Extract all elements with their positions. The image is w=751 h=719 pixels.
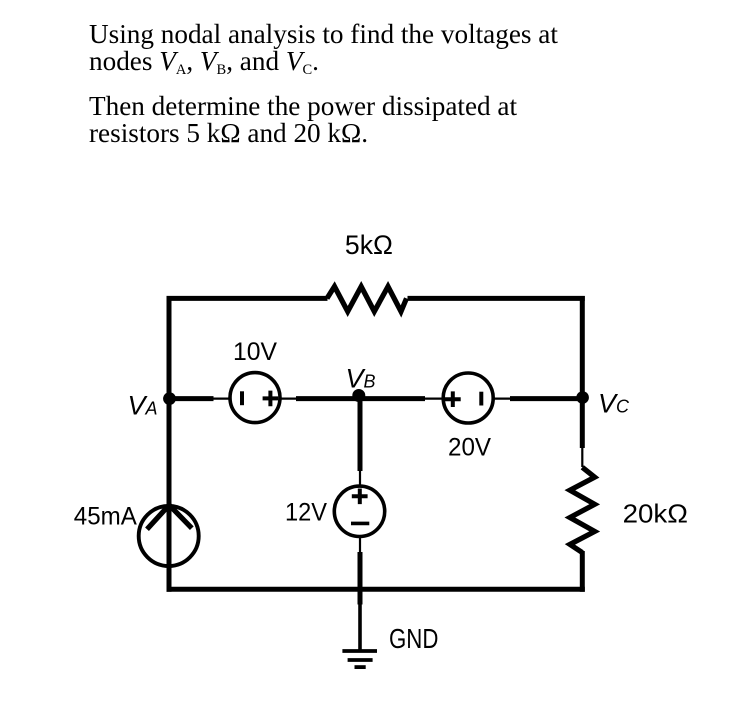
resistor 5kOhm zigzag bbox=[327, 287, 407, 312]
question text paragraph 1 bbox=[89, 21, 558, 84]
voltage source 12V plus sign bbox=[352, 489, 368, 505]
wire: left vertical V_A branch bbox=[167, 296, 172, 592]
voltage source 12V minus bar bbox=[351, 522, 369, 526]
voltage source 10V circle bbox=[230, 373, 280, 423]
svg-text:12V: 12V bbox=[285, 499, 327, 527]
lead: 12V bottom bbox=[359, 536, 361, 553]
svg-text:45mA: 45mA bbox=[74, 502, 137, 530]
question text paragraph 2 bbox=[89, 93, 517, 147]
wire: 10V source to V_B bbox=[296, 396, 360, 401]
wire: right vertical upper bbox=[580, 296, 585, 448]
lead: 20V right bbox=[493, 398, 511, 400]
voltage source 20V circle bbox=[443, 373, 493, 423]
svg-text:VA: VA bbox=[128, 391, 158, 421]
resistor 20kOhm zigzag bbox=[570, 467, 595, 552]
wire: 20V source to V_C bbox=[510, 396, 582, 401]
wire: top right segment bbox=[408, 296, 585, 301]
lead: 10V left bbox=[214, 398, 231, 400]
svg-text:20V: 20V bbox=[448, 434, 491, 462]
wire: V_B branch down to 12V source bbox=[358, 399, 363, 471]
wire: 12V source to bottom wire and GND stub bbox=[358, 552, 363, 605]
ground bar 2 bbox=[348, 658, 373, 662]
wire: V_B to 20V source bbox=[360, 396, 425, 401]
svg-text:VB: VB bbox=[346, 363, 376, 393]
voltage source 20V minus terminal bar bbox=[479, 392, 483, 406]
voltage source 20V plus sign bbox=[445, 391, 461, 407]
lead: 10V right bbox=[280, 398, 297, 400]
node C dot bbox=[576, 391, 589, 404]
wire: top left segment bbox=[167, 296, 328, 301]
wire: right vertical lower bbox=[580, 551, 585, 592]
svg-text:5kΩ: 5kΩ bbox=[345, 230, 393, 260]
lead: 20k resistor top bbox=[581, 448, 583, 468]
svg-text:10V: 10V bbox=[233, 338, 277, 366]
current source 45mA circle bbox=[139, 506, 199, 566]
voltage source 12V circle bbox=[334, 486, 384, 536]
ground bar 1 bbox=[342, 649, 377, 653]
ground stem thin bbox=[358, 604, 362, 651]
wire: bottom horizontal bbox=[167, 587, 585, 592]
node A dot bbox=[163, 392, 176, 405]
svg-text:20kΩ: 20kΩ bbox=[623, 499, 688, 529]
svg-text:VC: VC bbox=[598, 389, 630, 419]
lead: 20V left bbox=[425, 398, 444, 400]
voltage source 10V plus sign bbox=[263, 391, 279, 407]
current source 45mA arrowhead bbox=[147, 505, 192, 529]
lead: 12V top bbox=[359, 471, 361, 487]
node B dot bbox=[352, 389, 365, 402]
voltage source 10V minus terminal bar bbox=[240, 391, 244, 405]
ground bar 3 bbox=[355, 665, 366, 669]
wire: middle V_A to 10V source bbox=[169, 396, 214, 401]
svg-text:GND: GND bbox=[389, 623, 438, 654]
